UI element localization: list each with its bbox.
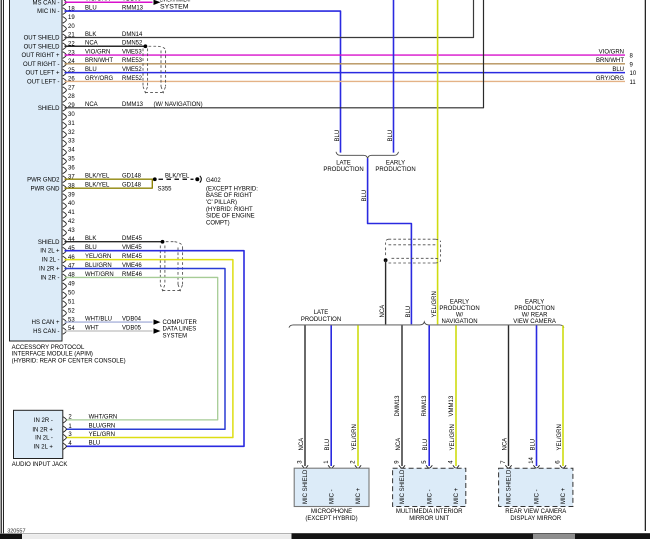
svg-text:EARLY: EARLY [386,160,405,166]
rear view mirror pin bracket [533,465,539,468]
svg-text:31: 31 [68,121,75,127]
svg-text:VIO/GRN: VIO/GRN [599,49,624,55]
wire HS CAN- WHT VDB05 (pin 54) [65,330,153,332]
svg-text:VIO/GRN: VIO/GRN [85,0,110,3]
svg-text:VIEW CAMERA: VIEW CAMERA [513,319,556,325]
svg-text:IN 2L +: IN 2L + [34,444,54,450]
microphone pin bracket [302,465,308,468]
svg-text:IN 2L -: IN 2L - [35,436,53,442]
multimedia mirror pin bracket [399,465,405,468]
wire BLU to rear view mirror pin 14 [536,325,538,466]
svg-text:14: 14 [529,456,535,463]
APIM pin 52 bracket [63,310,67,317]
svg-text:SHIELD: SHIELD [38,240,60,246]
svg-text:32: 32 [68,130,75,136]
svg-text:MIC +: MIC + [561,487,567,504]
svg-text:11: 11 [630,80,637,86]
svg-text:REAR VIEW CAMERA: REAR VIEW CAMERA [505,509,566,515]
microphone pin bracket [355,465,361,468]
svg-text:(EXCEPT HYBRID:: (EXCEPT HYBRID: [206,186,258,192]
APIM pin 45 bracket [63,247,67,254]
svg-text:BLU/GRN: BLU/GRN [89,424,116,430]
svg-text:NCA: NCA [380,305,386,318]
svg-text:MIC +: MIC + [356,487,362,504]
svg-text:RMM13: RMM13 [422,395,428,417]
svg-text:G402: G402 [206,178,221,184]
svg-text:33: 33 [68,139,75,145]
svg-text:EARLY: EARLY [450,300,469,306]
scrollbar left block [0,534,22,539]
svg-text:51: 51 [68,299,75,305]
svg-text:PRODUCTION: PRODUCTION [514,306,554,312]
wire BLU to multimedia mirror pin 5 [428,325,430,466]
svg-text:SYSTEM: SYSTEM [160,3,189,10]
svg-text:BASE OF RIGHT: BASE OF RIGHT [206,193,253,199]
svg-text:(EXCEPT HYBRID): (EXCEPT HYBRID) [305,516,357,522]
svg-text:SIDE OF ENGINE: SIDE OF ENGINE [206,214,255,220]
svg-text:PRODUCTION: PRODUCTION [323,167,363,173]
APIM pin 41 bracket [63,212,67,219]
svg-text:35: 35 [68,157,75,163]
svg-text:BLU: BLU [530,439,536,451]
wire IN 2R- WHT/GRN RME46 (pin 48) to jack pin 2 [65,277,218,419]
wire NCA drain down [385,260,387,324]
wire BLU to microphone pin 1 [330,325,332,466]
svg-text:OUT SHIELD: OUT SHIELD [24,36,61,42]
svg-text:50: 50 [68,290,75,296]
svg-text:28: 28 [68,94,75,100]
svg-text:PWR GND2: PWR GND2 [27,177,60,183]
rear view mirror pin bracket [560,465,566,468]
junction dot shield 2 [161,240,165,244]
svg-text:MIRROR UNIT: MIRROR UNIT [409,516,449,522]
wire YEL/GRN vertical (from top) [437,0,439,324]
svg-text:NCA: NCA [502,438,508,451]
svg-text:(W/ NAVIGATION): (W/ NAVIGATION) [154,102,203,108]
APIM pin 44 bracket [63,238,67,245]
multimedia mirror pin bracket [426,465,432,468]
svg-text:(HYBRID: REAR OF CENTER CONSOL: (HYBRID: REAR OF CENTER CONSOLE) [12,359,126,365]
svg-text:OUT LEFT -: OUT LEFT - [27,80,59,86]
APIM pin 48 bracket [63,274,67,281]
svg-text:LATE: LATE [336,160,351,166]
svg-text:PRODUCTION: PRODUCTION [439,306,479,312]
wire YEL/GRN to multimedia mirror pin 4 [455,325,457,466]
microphone pin bracket [328,465,334,468]
svg-text:EARLY: EARLY [525,300,544,306]
wire SHIELD BLK DME45 (pin 44) to shield drain [65,241,163,243]
svg-text:30: 30 [68,112,75,118]
APIM pin 32 bracket [63,131,67,138]
svg-text:PWR GND: PWR GND [31,186,61,192]
svg-text:LATE: LATE [314,310,329,316]
svg-text:MICROPHONE: MICROPHONE [311,509,352,515]
svg-text:INTERFACE MODULE (APIM): INTERFACE MODULE (APIM) [12,352,93,358]
APIM pin 26 bracket [63,78,67,85]
svg-text:BRN/WHT: BRN/WHT [596,58,624,64]
left page border (double line) [0,0,2,534]
APIM pin 46 bracket [63,256,67,263]
APIM pin 19 bracket [63,17,67,24]
svg-text:DATA LINES: DATA LINES [163,327,197,333]
rear view mirror pin bracket [505,465,511,468]
svg-text:MIC -: MIC - [535,489,541,504]
svg-text:OUT RIGHT -: OUT RIGHT - [23,62,59,68]
svg-text:52: 52 [68,308,75,314]
wire OUT SHIELD NCA DMN52 (pin 22) to shield drain [65,45,146,47]
wire OUT SHIELD BLK DMN14 (pin 21), exits top [65,0,474,37]
wire IN 2R+ BLU/GRN VME46 (pin 47) to jack pin 1 [65,269,226,430]
APIM pin 42 bracket [63,221,67,228]
wire BLU drop from bracket [368,158,412,324]
APIM pin 22 bracket [63,43,67,50]
splice S355 [153,177,157,181]
APIM pin 50 bracket [63,292,67,299]
svg-text:VDB06: VDB06 [122,0,142,3]
svg-text:BLU: BLU [388,130,394,142]
svg-text:MIC SHIELD: MIC SHIELD [507,469,513,504]
svg-text:YEL/GRN: YEL/GRN [352,424,358,450]
svg-text:IN 2L -: IN 2L - [42,258,60,264]
svg-text:W/ REAR: W/ REAR [522,312,548,318]
svg-text:MIC IN -: MIC IN - [37,9,59,15]
svg-text:S355: S355 [158,186,173,192]
wire NCA to microphone pin 3 [304,325,306,466]
svg-text:MIC +: MIC + [454,487,460,504]
svg-text:SHIELD: SHIELD [38,106,60,112]
svg-text:(HYBRID: RIGHT: (HYBRID: RIGHT [206,207,253,213]
svg-text:IN 2R -: IN 2R - [34,418,53,424]
connector block: MULTIMEDIA INTERIOR MIRROR UNIT (dashed) [393,468,466,506]
jack pin 1 IN 2R + [63,426,67,433]
wire NCA to multimedia mirror pin 9 [401,325,403,466]
svg-text:40: 40 [68,201,75,207]
svg-text:'C' PILLAR): 'C' PILLAR) [206,200,237,206]
svg-text:IN 2L +: IN 2L + [40,249,60,255]
APIM pin 17 bracket [63,0,67,6]
svg-text:NCA: NCA [396,438,402,451]
APIM pin 54 bracket [63,328,67,335]
svg-text:MIC SHIELD: MIC SHIELD [400,469,406,504]
svg-text:YEL/GRN: YEL/GRN [432,291,438,317]
APIM pin 49 bracket [63,283,67,290]
APIM pin 51 bracket [63,301,67,308]
wire YEL/GRN to rear view mirror pin 6 [562,325,564,466]
APIM pin 28 bracket [63,96,67,103]
svg-text:COMPUTER: COMPUTER [163,320,198,326]
svg-text:IN 2R -: IN 2R - [40,276,59,282]
wire pin 25 to right edge [65,72,626,74]
svg-text:OUT RIGHT +: OUT RIGHT + [22,53,60,59]
wire NCA to rear view mirror pin 7 [508,325,510,466]
svg-text:NAVIGATION: NAVIGATION [441,319,477,325]
svg-text:BLU: BLU [423,439,429,451]
svg-text:19: 19 [68,15,75,21]
svg-text:OUT LEFT +: OUT LEFT + [26,71,60,77]
APIM pin 53 bracket [63,319,67,326]
svg-text:36: 36 [68,165,75,171]
junction dot shield 3 / NCA drain [384,258,388,262]
wire PWR GND BLK/YEL GD148 (pin 38) joins splice [65,179,153,188]
APIM pin 36 bracket [63,167,67,174]
wire pin 23 to right edge [65,54,626,56]
APIM pin 20 bracket [63,25,67,32]
APIM pin 18 bracket [63,8,67,15]
wire MS CAN- VIO/GRN (pin 17) [65,1,153,3]
svg-text:34: 34 [68,148,75,154]
APIM pin 40 bracket [63,203,67,210]
connector block: AUDIO INPUT JACK [14,410,63,458]
svg-text:39: 39 [68,192,75,198]
APIM pin 25 bracket [63,69,67,76]
scrollbar thumb [533,534,575,539]
APIM pin 30 bracket [63,113,67,120]
svg-text:27: 27 [68,85,75,91]
svg-text:MS CAN -: MS CAN - [33,0,60,6]
bracket distribution bus [289,322,564,328]
arrow to entertainment system [154,0,161,5]
svg-text:ACCESSORY PROTOCOL: ACCESSORY PROTOCOL [12,345,85,351]
svg-text:GRY/ORG: GRY/ORG [596,76,625,82]
jack pin 2 IN 2R - [63,417,67,424]
arrow computer data lines (54) [154,328,161,333]
APIM pin 29 bracket [63,104,67,111]
svg-text:COMPT): COMPT) [206,220,230,226]
svg-text:MIC -: MIC - [427,489,433,504]
svg-text:YEL/GRN: YEL/GRN [89,432,115,438]
svg-text:HS CAN -: HS CAN - [33,329,59,335]
svg-text:MULTIMEDIA INTERIOR: MULTIMEDIA INTERIOR [396,509,463,515]
APIM pin 35 bracket [63,158,67,165]
scrollbar light track [22,534,292,539]
svg-text:BLU: BLU [325,439,331,451]
APIM pin 21 bracket [63,34,67,41]
svg-text:20: 20 [68,24,75,30]
svg-text:DMM13: DMM13 [395,395,401,417]
wire BLU early production feeder (from top) [393,0,395,153]
svg-text:IN 2R +: IN 2R + [32,427,53,433]
svg-text:W/: W/ [456,312,464,318]
scrollbar dark region [292,533,650,539]
svg-text:PRODUCTION: PRODUCTION [375,167,415,173]
wire PWR GND2 BLK/YEL GD148 (pin 37) [65,178,155,180]
svg-text:YEL/GRN: YEL/GRN [450,424,456,450]
APIM pin 47 bracket [63,265,67,272]
APIM pin 23 bracket [63,52,67,59]
wire pin 24 to right edge [65,63,626,65]
svg-text:BLU: BLU [89,441,101,447]
scrollbar track line [0,533,292,535]
svg-text:10: 10 [630,71,637,77]
svg-text:MIC SHIELD: MIC SHIELD [303,469,309,504]
multimedia mirror pin bracket [453,465,459,468]
wire SHIELD NCA DMM13 (pin 29), exits top, W/ NAVIGATION [65,0,484,108]
svg-text:BLU: BLU [335,130,341,142]
svg-text:YEL/GRN: YEL/GRN [557,424,563,450]
wire pin 26 to right edge [65,80,626,82]
svg-text:49: 49 [68,282,75,288]
jack pin 3 IN 2L - [63,434,67,441]
APIM pin 34 bracket [63,149,67,156]
APIM pin 33 bracket [63,140,67,147]
shield symbol on mic pair [389,238,436,240]
jack pin 4 IN 2L + [63,443,67,450]
shield symbol around IN 2L/2R wires [159,246,161,285]
wire IN 2L+ BLU VME45 (pin 45) to jack pin 4 [65,251,245,447]
connector block: REAR VIEW CAMERA DISPLAY MIRROR (dashed) [499,468,573,506]
APIM pin 37 bracket [63,176,67,183]
svg-text:VMM13: VMM13 [449,395,455,416]
svg-text:AUDIO INPUT JACK: AUDIO INPUT JACK [12,462,68,468]
svg-text:BLU: BLU [406,306,412,318]
svg-text:PRODUCTION: PRODUCTION [301,317,341,323]
APIM pin 38 bracket [63,185,67,192]
arrow computer data lines (53) [154,319,161,324]
right page border [644,0,646,531]
wire MIC IN- BLU RMM13 (pin 18), turns down (late production feeder) [65,11,341,153]
shield symbol around OUT pair wires [142,49,144,87]
APIM pin 39 bracket [63,194,67,201]
svg-text:HS CAN +: HS CAN + [32,320,60,326]
svg-text:SYSTEM: SYSTEM [163,333,188,339]
svg-text:OUT SHIELD: OUT SHIELD [24,44,61,50]
svg-text:MIC -: MIC - [329,489,335,504]
svg-text:43: 43 [68,228,75,234]
APIM pin 43 bracket [63,229,67,236]
svg-text:BLU: BLU [612,67,624,73]
bracket joining late/early feeders [336,152,399,158]
svg-text:42: 42 [68,219,75,225]
APIM pin 27 bracket [63,87,67,94]
junction dot shield 1 [144,44,148,48]
wire HS CAN+ WHT/BLU VDB04 (pin 53) [65,321,153,323]
svg-text:BLU: BLU [362,190,368,202]
ground G402 [195,177,199,181]
connector block: ACCESSORY PROTOCOL INTERFACE MODULE (APIM) [10,0,63,341]
APIM pin 31 bracket [63,122,67,129]
wire IN 2L- YEL/GRN RME45 (pin 46) to jack pin 3 [65,260,233,438]
connector block: MICROPHONE (EXCEPT HYBRID) [294,468,369,506]
svg-text:IN 2R +: IN 2R + [39,267,60,273]
svg-text:NCA: NCA [299,438,305,451]
wire YEL/GRN to microphone pin 2 [357,325,359,466]
APIM pin 24 bracket [63,61,67,68]
svg-text:WHT/GRN: WHT/GRN [89,414,118,420]
svg-text:DISPLAY MIRROR: DISPLAY MIRROR [510,516,561,522]
svg-text:41: 41 [68,210,75,216]
